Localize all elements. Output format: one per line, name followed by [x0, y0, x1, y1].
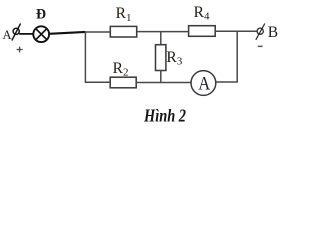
resistor R3 box (vertical) — [156, 45, 166, 71]
wire: R3 top vertical — [160, 32, 162, 45]
wire: left junction to R1 — [85, 31, 111, 33]
wire: right vertical junction — [236, 31, 238, 82]
svg-text:B: B — [268, 24, 278, 41]
resistor R2 box — [110, 77, 136, 88]
svg-text:R1: R1 — [116, 5, 132, 24]
svg-text:R4: R4 — [194, 4, 210, 23]
wire: R1 to R4 — [137, 31, 189, 33]
svg-text:A: A — [3, 28, 12, 42]
svg-text:R2: R2 — [113, 60, 129, 79]
svg-text:Đ: Đ — [36, 7, 46, 23]
terminal B (circle with slash) — [256, 24, 265, 40]
wire: terminal A to lamp — [19, 33, 33, 35]
wire: left junction to R2 — [85, 81, 111, 83]
polarity - — [258, 46, 263, 48]
resistor R1 box — [110, 26, 136, 37]
svg-text:R3: R3 — [166, 49, 182, 68]
lamp D (circle with X) — [33, 26, 49, 42]
wire: R3 bottom vertical — [160, 71, 162, 83]
wire: left junction vertical — [84, 32, 86, 83]
resistor R4 box — [189, 26, 216, 37]
svg-text:A: A — [198, 74, 210, 95]
wire: ammeter to right vertical — [216, 81, 238, 83]
svg-text:Hình 2: Hình 2 — [143, 105, 186, 125]
polarity + — [17, 47, 23, 53]
wire: R2 to ammeter — [136, 82, 191, 84]
ammeter A — [191, 71, 216, 96]
wire: R4 to terminal B — [215, 30, 257, 32]
wire: lamp to left junction (thick) — [49, 32, 85, 34]
terminal A (circle with slash) — [12, 24, 21, 41]
